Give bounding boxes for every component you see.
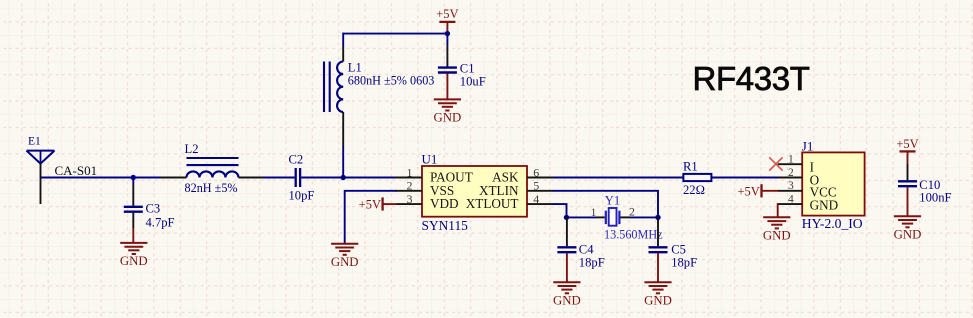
inductor L2 pin 1 bbox=[160, 177, 187, 179]
wire C10 to ground bbox=[907, 187, 909, 216]
wire R1 to J1 pin 2 bbox=[711, 177, 778, 179]
svg-text:1: 1 bbox=[407, 165, 413, 179]
U1 pin 3 bbox=[396, 203, 423, 205]
svg-text:HY-2.0_IO: HY-2.0_IO bbox=[802, 216, 863, 231]
svg-text:+5V: +5V bbox=[359, 198, 381, 212]
wire Y1 to node E bbox=[630, 216, 658, 218]
svg-text:L2: L2 bbox=[185, 142, 199, 156]
svg-text:C5: C5 bbox=[671, 243, 686, 257]
wire ASK to R1 bbox=[553, 177, 683, 179]
svg-text:2: 2 bbox=[788, 167, 794, 179]
U1 pin 2 bbox=[396, 190, 423, 192]
svg-text:+5V: +5V bbox=[737, 184, 759, 198]
svg-text:18pF: 18pF bbox=[671, 256, 697, 270]
inductor L1 bbox=[324, 60, 434, 112]
svg-text:GND: GND bbox=[644, 294, 672, 308]
svg-text:RF433T: RF433T bbox=[693, 60, 810, 97]
svg-text:GND: GND bbox=[331, 255, 359, 269]
capacitor C1 bbox=[438, 61, 486, 88]
wire C5 to ground bbox=[657, 253, 659, 282]
resistor R1 bbox=[683, 160, 711, 197]
node B junction bbox=[341, 175, 346, 180]
svg-text:4: 4 bbox=[533, 192, 539, 206]
wire XTLOUT to node D bbox=[553, 204, 567, 217]
svg-text:Y1: Y1 bbox=[605, 194, 620, 208]
inductor L2 pin 2 bbox=[239, 177, 264, 179]
U1 pin 6 bbox=[527, 177, 554, 179]
svg-text:13.560MHz: 13.560MHz bbox=[604, 227, 663, 241]
ground bbox=[553, 282, 581, 307]
power +5V C10 bbox=[896, 137, 918, 164]
antenna E1 pin bbox=[40, 164, 42, 204]
svg-text:C4: C4 bbox=[579, 243, 594, 257]
svg-text:18pF: 18pF bbox=[579, 256, 605, 270]
svg-text:+5V: +5V bbox=[896, 137, 918, 151]
wire top rail down to L1 bbox=[342, 33, 344, 46]
svg-text:GND: GND bbox=[120, 254, 148, 268]
svg-text:VDD: VDD bbox=[430, 196, 459, 211]
wire node A to L2 bbox=[133, 177, 163, 179]
svg-text:6: 6 bbox=[533, 165, 539, 179]
wire node D to Y1 bbox=[567, 216, 597, 218]
svg-text:5: 5 bbox=[533, 179, 539, 193]
capacitor C3 pin 2 bbox=[132, 213, 134, 228]
wire node B to U1 pin 1 bbox=[343, 177, 397, 179]
ground bbox=[644, 282, 672, 307]
svg-text:3: 3 bbox=[407, 192, 413, 206]
power +5V VDD bbox=[359, 197, 397, 211]
svg-text:U1: U1 bbox=[422, 151, 438, 166]
crystal Y1 bbox=[604, 194, 663, 242]
wire C4 to ground bbox=[566, 253, 568, 282]
svg-text:22Ω: 22Ω bbox=[683, 183, 705, 197]
capacitor C10 bbox=[898, 178, 952, 205]
ground bbox=[763, 217, 791, 242]
svg-text:10uF: 10uF bbox=[460, 75, 486, 89]
svg-text:GND: GND bbox=[810, 198, 839, 213]
power +5V VCC bbox=[737, 184, 778, 198]
J1 pin 3 bbox=[778, 190, 803, 192]
svg-text:C1: C1 bbox=[460, 61, 475, 75]
ground bbox=[331, 244, 359, 269]
wire XTLIN to node E bbox=[553, 191, 658, 218]
svg-text:4.7pF: 4.7pF bbox=[146, 215, 175, 229]
connector J1 HY-2.0_IO bbox=[802, 139, 865, 231]
svg-text:L1: L1 bbox=[348, 60, 362, 74]
capacitor C4 bbox=[557, 243, 604, 270]
svg-text:82nH ±5%: 82nH ±5% bbox=[185, 181, 238, 195]
svg-text:R1: R1 bbox=[683, 160, 698, 174]
svg-text:SYN115: SYN115 bbox=[422, 218, 469, 233]
J1 pin 4 bbox=[778, 203, 803, 205]
node D junction bbox=[564, 215, 569, 220]
svg-text:XTLOUT: XTLOUT bbox=[466, 196, 519, 211]
node A junction bbox=[131, 175, 136, 180]
svg-text:GND: GND bbox=[894, 228, 922, 242]
svg-text:GND: GND bbox=[434, 111, 462, 125]
crystal Y1 pin 2 bbox=[620, 216, 630, 218]
capacitor C1 pin 1 bbox=[446, 45, 448, 67]
wire L1 to node B bbox=[342, 146, 344, 178]
wire J1 GND pin down bbox=[777, 204, 780, 217]
wire C3 to ground bbox=[132, 228, 134, 243]
inductor L2 bbox=[185, 142, 239, 195]
power +5V top bbox=[436, 7, 458, 34]
svg-text:GND: GND bbox=[553, 294, 581, 308]
node C junction bbox=[445, 31, 450, 36]
svg-text:680nH ±5% 0603: 680nH ±5% 0603 bbox=[348, 74, 435, 88]
U1 pin 4 bbox=[527, 203, 554, 205]
svg-text:C3: C3 bbox=[146, 202, 161, 216]
J1 pin 1 bbox=[778, 163, 803, 165]
wire C1 to ground bbox=[446, 74, 448, 100]
wire top rail L1 to node C bbox=[343, 33, 447, 35]
ground bbox=[434, 99, 462, 124]
capacitor C10 pin 1 bbox=[907, 164, 909, 180]
wire antenna to node A bbox=[41, 177, 134, 179]
svg-text:GND: GND bbox=[763, 229, 791, 243]
capacitor C2 bbox=[289, 153, 315, 203]
inductor L1 pin 2 bbox=[342, 112, 344, 146]
capacitor C3 bbox=[124, 202, 175, 230]
capacitor C4 pin 1 bbox=[566, 217, 568, 246]
ground bbox=[894, 216, 922, 241]
inductor L1 pin 1 bbox=[342, 46, 344, 62]
svg-text:+5V: +5V bbox=[436, 7, 458, 21]
wire node A down bbox=[132, 178, 134, 185]
wire VSS to ground bbox=[345, 191, 397, 244]
svg-text:E1: E1 bbox=[28, 135, 41, 147]
svg-text:2: 2 bbox=[407, 179, 413, 193]
svg-text:J1: J1 bbox=[802, 139, 814, 154]
antenna E1 bbox=[27, 135, 55, 163]
svg-text:1: 1 bbox=[591, 207, 597, 219]
wire L2 to C2 bbox=[263, 177, 295, 179]
op chip U1 SYN115 bbox=[422, 151, 528, 233]
svg-text:C2: C2 bbox=[289, 153, 304, 167]
node E junction bbox=[655, 215, 660, 220]
no-ERC marker J1 pin 1 bbox=[769, 157, 782, 170]
capacitor C5 bbox=[649, 243, 698, 270]
svg-text:100nF: 100nF bbox=[919, 190, 951, 204]
ground bbox=[120, 243, 148, 268]
J1 pin 2 bbox=[778, 177, 803, 179]
wire C2 to node B bbox=[301, 177, 343, 179]
svg-text:3: 3 bbox=[788, 180, 794, 192]
crystal Y1 pin 1 bbox=[596, 216, 605, 218]
U1 pin 1 bbox=[396, 177, 423, 179]
capacitor C5 pin 1 bbox=[657, 217, 659, 246]
U1 pin 5 bbox=[527, 190, 554, 192]
svg-text:4: 4 bbox=[788, 194, 794, 206]
svg-text:1: 1 bbox=[788, 153, 794, 165]
svg-text:CA-S01: CA-S01 bbox=[55, 163, 98, 178]
wire node C down bbox=[446, 34, 448, 45]
svg-text:10pF: 10pF bbox=[289, 189, 315, 203]
capacitor C3 pin 1 bbox=[132, 184, 134, 206]
